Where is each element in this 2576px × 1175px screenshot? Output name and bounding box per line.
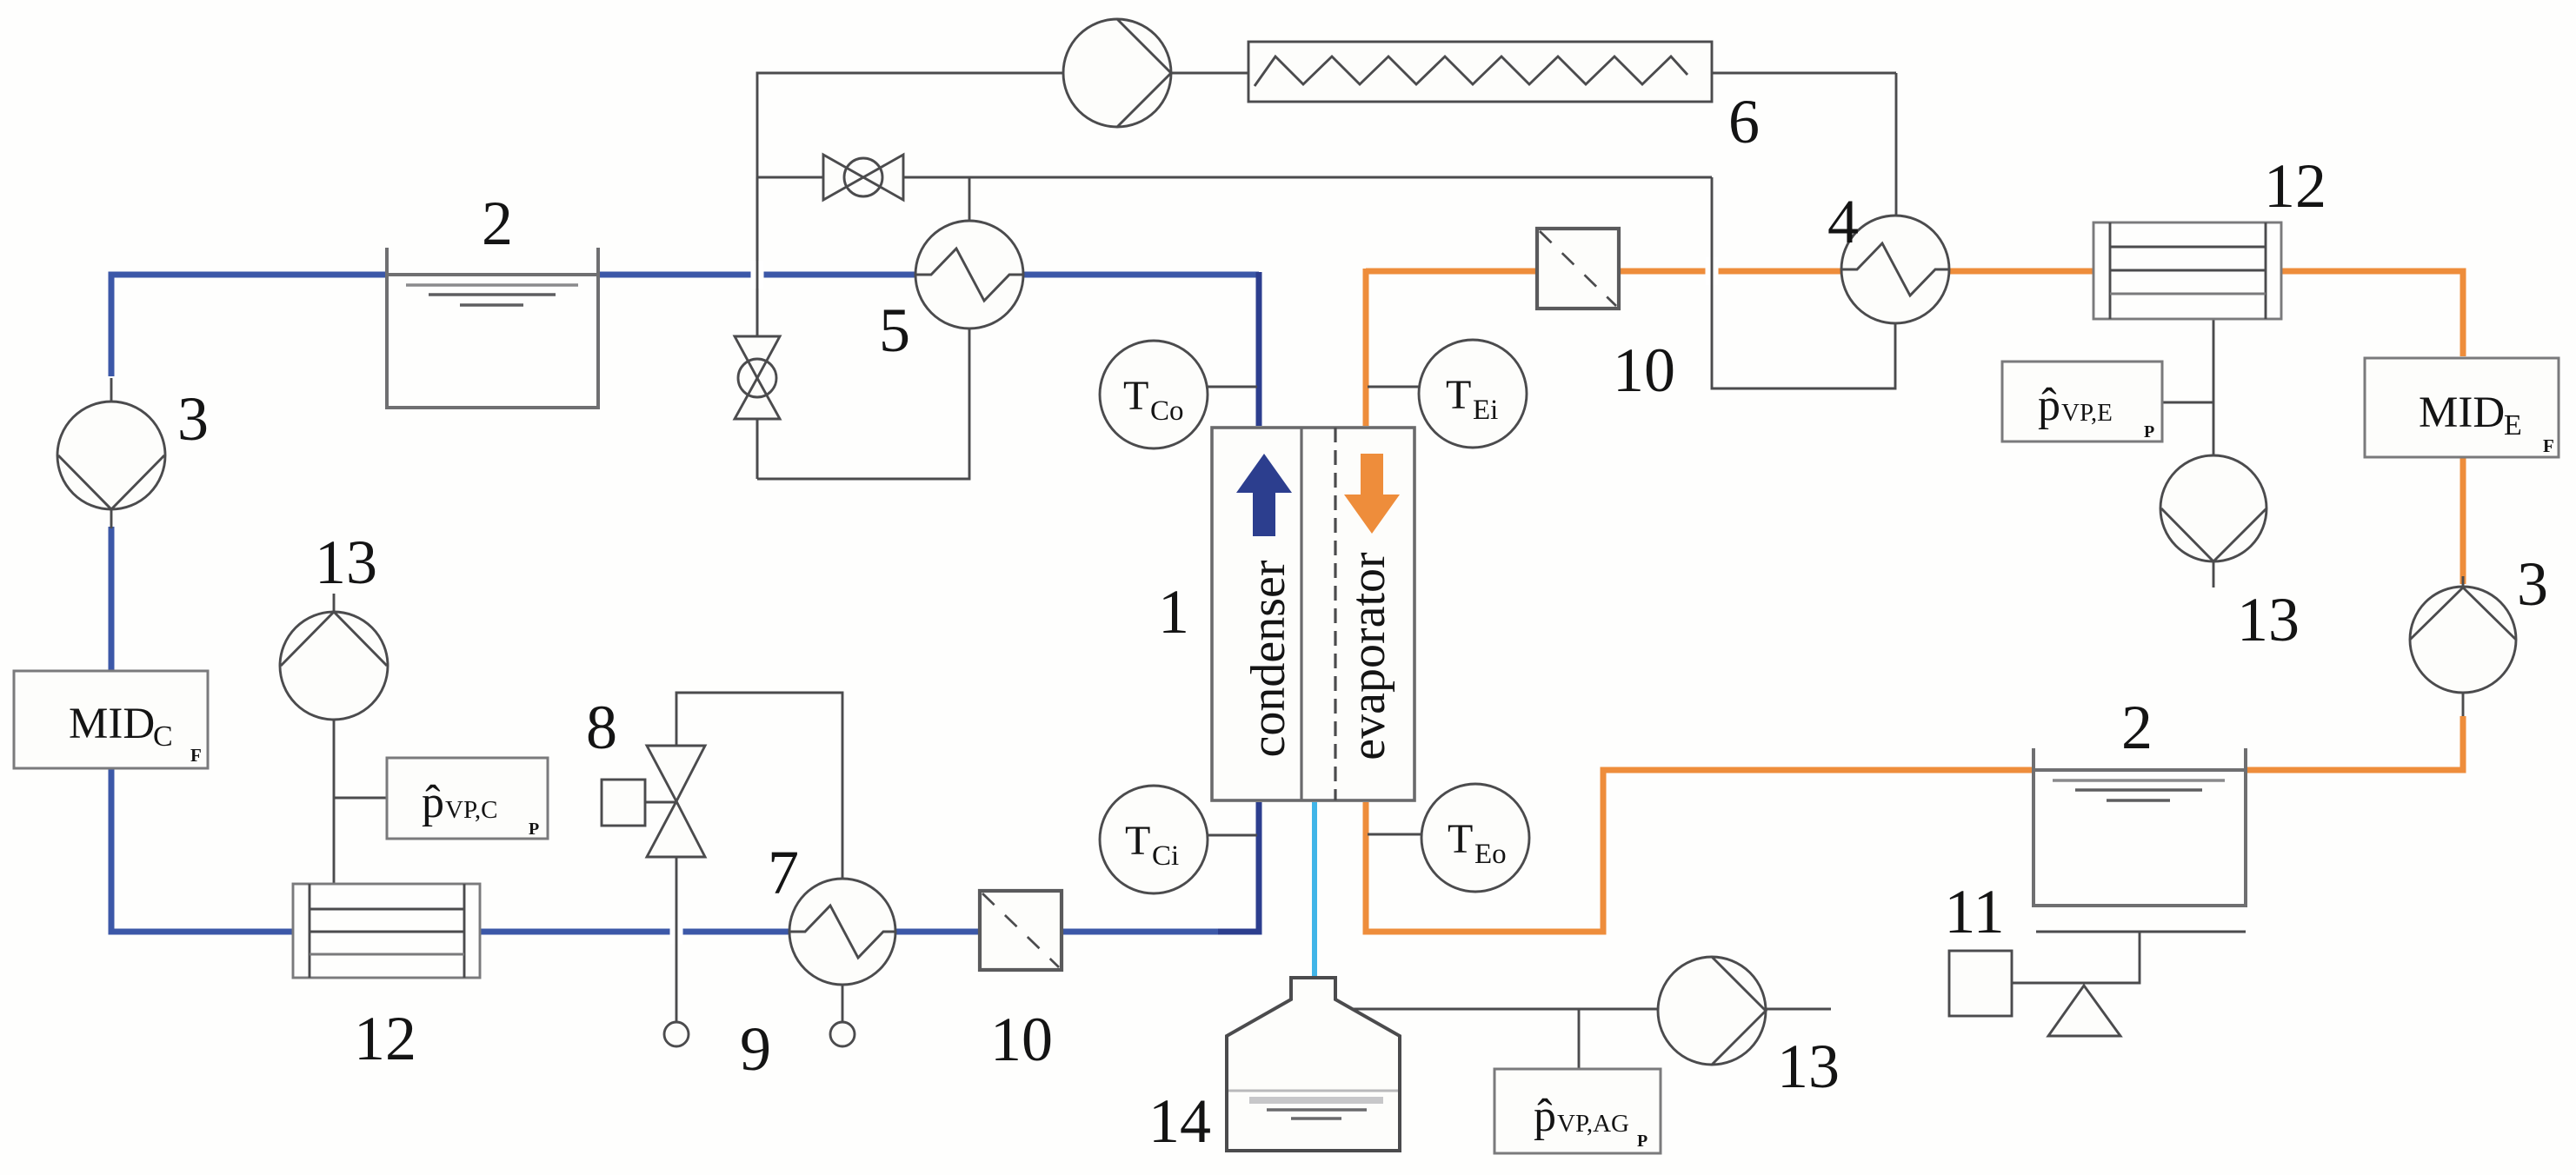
svg-text:P: P xyxy=(529,820,539,839)
svg-text:12: 12 xyxy=(2264,151,2326,221)
svg-text:13: 13 xyxy=(2237,585,2300,654)
svg-text:2: 2 xyxy=(2121,693,2153,762)
svg-text:3: 3 xyxy=(177,384,209,454)
svg-text:p̂: p̂ xyxy=(1534,1092,1556,1141)
svg-text:12: 12 xyxy=(354,1004,416,1073)
svg-text:MID: MID xyxy=(2419,388,2505,437)
svg-text:p̂: p̂ xyxy=(422,778,444,827)
svg-text:13: 13 xyxy=(1777,1032,1840,1101)
svg-text:14: 14 xyxy=(1148,1086,1211,1156)
svg-text:8: 8 xyxy=(586,693,617,762)
svg-text:VP,AG: VP,AG xyxy=(1557,1110,1629,1138)
svg-text:5: 5 xyxy=(879,295,910,365)
svg-text:2: 2 xyxy=(482,189,513,258)
svg-text:Eo: Eo xyxy=(1474,839,1507,870)
svg-text:T: T xyxy=(1123,373,1148,419)
svg-text:F: F xyxy=(190,745,202,766)
svg-text:MID: MID xyxy=(69,700,155,748)
svg-text:11: 11 xyxy=(1944,877,2004,946)
svg-text:VP,C: VP,C xyxy=(445,796,497,824)
svg-text:9: 9 xyxy=(740,1014,771,1084)
svg-text:1: 1 xyxy=(1158,577,1189,647)
svg-text:4: 4 xyxy=(1827,187,1859,256)
svg-text:p̂: p̂ xyxy=(2038,381,2060,430)
svg-text:T: T xyxy=(1448,816,1473,862)
svg-text:E: E xyxy=(2504,409,2522,441)
svg-text:T: T xyxy=(1125,818,1150,864)
svg-text:evaporator: evaporator xyxy=(1341,552,1395,760)
svg-text:C: C xyxy=(153,720,173,753)
svg-text:P: P xyxy=(1637,1132,1647,1151)
svg-text:Co: Co xyxy=(1150,395,1184,427)
svg-text:Ei: Ei xyxy=(1473,395,1498,426)
svg-text:6: 6 xyxy=(1728,87,1760,156)
svg-text:10: 10 xyxy=(990,1005,1053,1074)
svg-text:3: 3 xyxy=(2517,549,2548,619)
svg-text:Ci: Ci xyxy=(1152,840,1179,872)
svg-text:T: T xyxy=(1446,372,1471,418)
svg-text:13: 13 xyxy=(315,528,377,597)
svg-text:P: P xyxy=(2144,422,2154,441)
svg-text:F: F xyxy=(2543,435,2554,456)
svg-text:condenser: condenser xyxy=(1241,560,1295,757)
svg-text:10: 10 xyxy=(1613,335,1675,405)
svg-text:7: 7 xyxy=(768,838,799,907)
svg-text:VP,E: VP,E xyxy=(2061,399,2113,427)
